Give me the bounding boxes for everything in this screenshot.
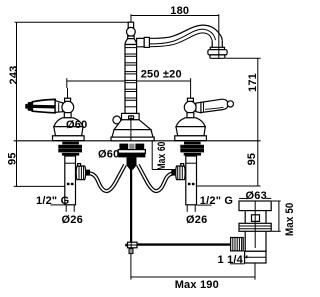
spout arm hub bulge	[137, 38, 145, 46]
spout tube bottom line	[149, 33, 212, 47]
extension line from 243 dim to finial	[15, 21, 131, 23]
left handle pommel nub	[25, 104, 28, 109]
dimension 95 left line	[16, 141, 18, 187]
spout base bell lower	[112, 130, 153, 138]
spout outlet centerline	[218, 47, 220, 58]
right valve tube centerline	[190, 156, 192, 204]
spout outlet flange ring1	[210, 47, 224, 49]
drain overflow slot	[252, 215, 260, 222]
svg-text:95: 95	[246, 153, 258, 166]
dimension 180 line	[131, 15, 219, 17]
svg-text:Max 50: Max 50	[284, 203, 296, 237]
svg-text:171: 171	[247, 73, 259, 92]
left handle ferrule	[55, 101, 63, 113]
spout column body	[125, 45, 137, 114]
left handle base flange	[53, 136, 85, 141]
svg-text:1 1/4": 1 1/4"	[218, 254, 249, 266]
extension line right of 180 down to spout outlet	[218, 14, 220, 58]
collar screw	[128, 115, 134, 119]
spout tube middle line	[149, 29, 215, 44]
spout base bell upper	[114, 120, 151, 130]
right handle centerline	[190, 95, 192, 141]
extension line bottom of right 95 to right shank	[197, 185, 261, 187]
svg-text:243: 243	[8, 66, 20, 85]
right handle neck	[187, 113, 194, 118]
left valve tube joint marks	[67, 183, 70, 185]
center shank nut left (dark)	[119, 144, 128, 150]
svg-text:Ø26: Ø26	[62, 214, 83, 226]
dimension 95 right line	[257, 141, 259, 186]
dimension Max 50 line	[272, 201, 281, 231]
left handle neck	[64, 113, 71, 118]
spout column collar with screws	[122, 113, 140, 119]
right handle top cap	[187, 98, 193, 101]
left handle plinth	[54, 127, 83, 136]
dimension Max 190 line	[131, 276, 255, 278]
svg-text:Ø26: Ø26	[186, 214, 207, 226]
spout column rib lines	[125, 48, 137, 107]
left valve mounting rings (dark)	[58, 142, 82, 156]
extension line bottom of left 95 to left shank	[14, 185, 65, 187]
left handle bell dome	[54, 118, 83, 127]
spout tube top line	[149, 25, 222, 40]
left valve shank tube	[65, 156, 76, 205]
drain Ø63 dim dashes	[239, 197, 247, 199]
left valve tube joint line upper	[65, 162, 76, 164]
center bracket plate lower (dark)	[118, 153, 145, 157]
extension line from spout finial top to 180 dim	[130, 14, 132, 22]
right valve mounting rings (dark)	[180, 142, 204, 156]
drain centerline lower	[254, 263, 256, 280]
spout base centerline	[130, 120, 132, 141]
spout outlet neck	[212, 40, 222, 47]
spout arm collar	[144, 37, 149, 47]
drain seal rings	[239, 223, 271, 231]
deck line	[14, 140, 261, 142]
right valve hose union nut	[171, 164, 185, 180]
drain body	[245, 211, 266, 252]
dimension 243 line	[16, 22, 18, 141]
spout outlet flange rim	[210, 55, 225, 58]
right handle pommel	[227, 101, 233, 107]
left Ø26 extension lines	[65, 205, 67, 212]
right handle grip (white lever)	[201, 99, 228, 112]
right handle bell dome	[176, 118, 205, 127]
pop-up vertical rod	[130, 168, 132, 243]
left handle grip core line	[33, 105, 56, 109]
drain tailpiece	[245, 251, 266, 263]
spout column finial stem	[128, 22, 133, 27]
horizontal pop-up rod to drain	[137, 243, 231, 245]
dimension Max 60 line	[152, 141, 186, 170]
center manifold block	[127, 157, 137, 169]
spout column finial ball	[126, 27, 135, 36]
leader line right 1/2 G	[197, 204, 212, 206]
svg-text:Max 60: Max 60	[156, 142, 168, 171]
drain centerline	[254, 201, 256, 248]
rod clamp thumbscrew	[129, 249, 133, 254]
right valve tube joint marks	[188, 183, 191, 185]
svg-text:Ø60: Ø60	[66, 119, 87, 131]
svg-text:180: 180	[170, 5, 189, 17]
left handle grip (lever body)	[32, 99, 55, 112]
left handle centerline	[67, 88, 69, 141]
right Ø26 extension lines	[186, 205, 188, 212]
spout column neck	[128, 36, 134, 39]
svg-text:95: 95	[7, 152, 19, 165]
drain flange	[239, 201, 271, 211]
spout base flange	[111, 137, 154, 141]
spout column trumpet	[125, 39, 137, 45]
left valve hose union nut	[76, 164, 90, 180]
left handle ball	[62, 101, 74, 113]
lift rod knob stem	[118, 124, 122, 128]
right valve tube joint line upper	[186, 162, 197, 164]
svg-text:Ø63: Ø63	[246, 190, 267, 202]
center bracket plate	[118, 150, 145, 154]
right handle plinth	[176, 127, 205, 136]
right hose	[138, 165, 174, 191]
dimension 171 line	[257, 58, 259, 141]
leader line left 1/2 G	[51, 204, 65, 206]
left handle tip cap (dark)	[28, 102, 33, 111]
svg-text:Ø60: Ø60	[98, 149, 119, 161]
rod clamp	[125, 242, 137, 248]
svg-text:250 ±20: 250 ±20	[141, 69, 182, 81]
left valve tube centerline	[69, 156, 71, 204]
leader line 1 1/4	[230, 263, 245, 265]
right handle ball	[184, 101, 196, 113]
right valve shank tube	[186, 156, 197, 205]
spout outlet flange ring2	[208, 50, 227, 55]
right handle base flange	[175, 136, 207, 141]
right handle ferrule	[196, 102, 201, 113]
extension line from spout outlet to 171 dim	[225, 57, 260, 59]
center shank nut right (dark)	[135, 144, 144, 150]
dimension 250 +-20 line	[67, 78, 191, 95]
lift rod knob	[113, 116, 121, 124]
center shaft between nuts	[129, 144, 134, 158]
drain rod clamp nut (knurled)	[231, 238, 244, 251]
left handle top cap	[65, 98, 71, 101]
left hose	[89, 165, 125, 191]
svg-text:Max 190: Max 190	[175, 279, 219, 291]
extension line below clamp	[130, 254, 132, 280]
